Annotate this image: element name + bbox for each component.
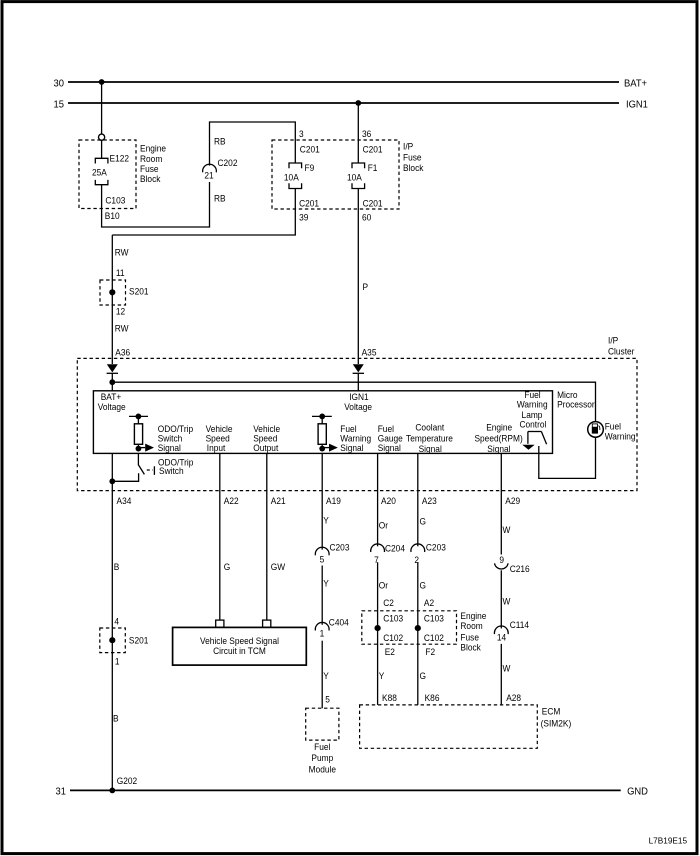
svg-text:Signal: Signal	[158, 442, 181, 453]
svg-text:B: B	[114, 561, 120, 572]
pin C2 label	[383, 597, 394, 608]
svg-text:Y: Y	[323, 670, 329, 681]
fuse value 25A label	[92, 167, 107, 178]
I/P cluster dashed box	[77, 358, 637, 490]
wire color Or label (A20 middle)	[379, 580, 388, 591]
Fuel Warning Lamp Control label	[517, 390, 548, 430]
I/P fuse block dashed box	[272, 140, 399, 209]
Fuel Warning Signal label	[340, 424, 371, 453]
pin B10 label	[105, 210, 120, 221]
pin K86 label	[425, 692, 440, 703]
pin 1 label	[115, 656, 120, 667]
svg-text:C102: C102	[383, 632, 403, 643]
wire: A34 cluster to G202	[111, 453, 113, 790]
fuse F9 10A	[289, 163, 302, 189]
svg-text:Output: Output	[253, 442, 279, 453]
svg-text:A21: A21	[271, 496, 286, 507]
pin F2 label	[425, 647, 435, 658]
pin 36 label	[362, 129, 371, 140]
wire: C216 to C114	[500, 570, 502, 628]
ground (lamp control)	[522, 445, 534, 450]
node G202 label	[117, 776, 137, 787]
fuse F1 10A	[352, 163, 365, 189]
ODO/Trip switch	[112, 453, 154, 481]
ODO/Trip Switch label	[158, 457, 193, 477]
ECM dashed box	[360, 705, 538, 748]
splice S201 (lower)	[100, 628, 149, 653]
Fuel Pump Module label	[309, 741, 336, 774]
fuse E122 25A	[95, 158, 108, 184]
svg-text:A34: A34	[117, 496, 132, 507]
svg-text:P: P	[363, 282, 369, 293]
svg-text:5: 5	[325, 694, 330, 705]
svg-text:Coolant: Coolant	[415, 422, 444, 433]
svg-text:W: W	[503, 525, 511, 536]
fuse F1 designator label	[368, 162, 378, 173]
svg-text:B: B	[113, 713, 119, 724]
svg-text:25A: 25A	[92, 167, 107, 178]
connector C114 pin 14	[494, 620, 529, 643]
engine room fuse block (bottom) dashed box	[362, 611, 457, 644]
connector C216 pin 9	[495, 555, 530, 574]
wire color G label (A23 upper)	[420, 516, 427, 527]
svg-text:F9: F9	[305, 162, 315, 173]
svg-text:A23: A23	[422, 496, 437, 507]
pin K88 label	[382, 692, 397, 703]
svg-text:Control: Control	[519, 419, 546, 430]
TCM terminal (A22 side)	[216, 620, 224, 627]
svg-text:RW: RW	[115, 247, 129, 258]
wire color GW label	[271, 561, 286, 572]
svg-text:GW: GW	[271, 561, 286, 572]
svg-text:Fuel: Fuel	[605, 421, 621, 432]
fuse value 10A label (F9)	[284, 172, 299, 183]
indicator lamp Fuel Warning	[588, 422, 604, 438]
pin A35 label	[362, 347, 377, 358]
svg-text:C216: C216	[510, 563, 530, 574]
connector C102 label (A23)	[424, 632, 444, 643]
Fuel Gauge Signal label	[378, 424, 403, 453]
fuse F9 designator label	[305, 162, 315, 173]
svg-text:C114: C114	[510, 620, 529, 631]
svg-text:1: 1	[115, 656, 120, 667]
wire: C404 to fuel pump module	[321, 641, 323, 709]
svg-text:L7B19E15: L7B19E15	[649, 835, 688, 845]
svg-text:Engine: Engine	[460, 610, 486, 621]
Vehicle Speed Output label	[253, 424, 280, 453]
svg-text:C103: C103	[105, 195, 125, 206]
wire: fuse E122 to C202 branch	[102, 182, 210, 227]
svg-text:Signal: Signal	[487, 443, 510, 454]
connector C102 label (A20)	[383, 632, 403, 643]
svg-text:B10: B10	[105, 210, 120, 221]
wire: A20 fuel gauge signal down to C204	[377, 453, 379, 546]
pin A19 label	[326, 496, 341, 507]
wire color G label (A23 lower)	[420, 670, 427, 681]
wire: IGN1 feed line 15	[68, 102, 619, 104]
connector C202	[203, 158, 238, 181]
connector bullet above engine room fuse block	[99, 134, 105, 140]
wire: fuse F1 down to cluster A35	[357, 189, 359, 365]
pin A28 label	[506, 692, 521, 703]
wire: BAT+ rail across cluster to fuel warning lamp	[112, 382, 595, 422]
svg-text:Engine: Engine	[486, 422, 512, 433]
svg-text:4: 4	[114, 616, 119, 627]
wire color Y label (A19 middle)	[323, 578, 329, 589]
wire: BAT+ feed line 30	[68, 81, 619, 83]
svg-text:60: 60	[362, 212, 371, 223]
pin E2 label	[385, 647, 395, 658]
svg-text:30: 30	[54, 78, 65, 89]
wire: F1 branch from line 15	[357, 103, 359, 163]
svg-text:Block: Block	[460, 642, 481, 653]
svg-text:RW: RW	[115, 323, 129, 334]
svg-text:21: 21	[204, 170, 213, 181]
svg-text:Y: Y	[323, 578, 329, 589]
pin 5 label (fuel pump)	[325, 694, 330, 705]
svg-text:Room: Room	[460, 621, 482, 632]
svg-text:IGN1: IGN1	[626, 99, 648, 110]
svg-text:S201: S201	[129, 635, 149, 646]
fuse E122 designator label	[110, 153, 130, 164]
engine room fuse block (top) dashed box	[79, 140, 136, 209]
svg-text:BAT+: BAT+	[624, 78, 647, 89]
svg-text:E122: E122	[110, 153, 130, 164]
Vehicle Speed Input label	[206, 424, 233, 453]
svg-text:Vehicle Speed Signal: Vehicle Speed Signal	[200, 635, 279, 646]
wire: C204 to ECM K88	[377, 562, 379, 705]
junction C103/C102 (A20)	[375, 625, 381, 631]
svg-text:S201: S201	[129, 286, 149, 297]
svg-text:G: G	[420, 670, 427, 681]
svg-text:Room: Room	[140, 153, 162, 164]
svg-text:A20: A20	[381, 496, 396, 507]
node 30 label	[54, 78, 65, 89]
svg-text:C2: C2	[383, 597, 394, 608]
junction on line 15 at F1 branch	[355, 100, 361, 106]
wire color RW label (below S201)	[115, 323, 129, 334]
wire: line30 down to fuse E122	[101, 82, 103, 134]
svg-text:Fuse: Fuse	[460, 632, 479, 643]
wire color Or label (A20 upper)	[379, 520, 388, 531]
fuse value 10A label (F1)	[347, 172, 362, 183]
wire color RB label (above C202)	[214, 136, 226, 147]
svg-text:A2: A2	[424, 597, 434, 608]
svg-text:G: G	[420, 580, 427, 591]
resistor R-fuel pull-up	[312, 414, 338, 452]
svg-text:Cluster: Cluster	[608, 346, 634, 357]
splice S201 (upper)	[100, 280, 149, 305]
vehicle speed signal circuit in TCM box	[173, 627, 307, 665]
diagram id L7B19E15	[649, 835, 688, 845]
svg-text:Fuse: Fuse	[140, 164, 159, 175]
cluster gauge unit solid box	[93, 391, 552, 454]
wire: lamp control loop to fuel warning lamp	[539, 437, 596, 478]
svg-text:Switch: Switch	[159, 466, 184, 477]
node IGN1 label	[626, 99, 648, 110]
pin A29 label	[505, 496, 520, 507]
svg-text:K86: K86	[425, 692, 440, 703]
svg-text:W: W	[503, 596, 511, 607]
svg-text:Input: Input	[207, 442, 226, 453]
svg-text:Block: Block	[140, 174, 161, 185]
TCM terminal (A21 side)	[263, 620, 271, 627]
svg-text:10A: 10A	[284, 172, 299, 183]
wire: bullet to fuse E122	[101, 140, 103, 158]
pin A20 label	[381, 496, 396, 507]
svg-text:5: 5	[320, 554, 325, 565]
svg-text:15: 15	[54, 99, 64, 110]
svg-text:C202: C202	[218, 158, 238, 169]
junction G202	[109, 788, 115, 794]
wire color G label (A22)	[224, 561, 231, 572]
junction on A34 wire at ODO switch	[109, 478, 115, 484]
svg-text:Block: Block	[403, 163, 424, 174]
svg-text:C103: C103	[424, 613, 444, 624]
wire color W label (A29 upper)	[503, 525, 511, 536]
svg-text:Temperature: Temperature	[406, 433, 453, 444]
wire: A19 fuel warning signal down to C203	[321, 453, 323, 549]
wire color Y label (A20 lower)	[379, 670, 385, 681]
wire: A21 vehicle speed output to TCM	[266, 453, 268, 620]
svg-text:G202: G202	[117, 776, 137, 787]
svg-text:9: 9	[499, 555, 504, 566]
wire color Y label (A19 lower)	[323, 670, 329, 681]
svg-text:31: 31	[56, 786, 66, 797]
svg-text:Voltage: Voltage	[344, 402, 372, 413]
node BAT+ label	[624, 78, 647, 89]
wire color W label (A29 middle)	[503, 596, 511, 607]
fuel pump module dashed box	[306, 708, 339, 740]
svg-text:C404: C404	[329, 617, 349, 628]
wire: C202 up and over to fuse F9	[210, 122, 296, 166]
svg-text:C203: C203	[330, 542, 350, 553]
wire: ground line 31 GND	[70, 789, 621, 791]
wire: A35 arrow to cluster box	[357, 373, 359, 391]
svg-text:F1: F1	[368, 162, 378, 173]
svg-text:RB: RB	[214, 193, 226, 204]
svg-text:Engine: Engine	[140, 143, 166, 154]
svg-text:C203: C203	[426, 542, 446, 553]
svg-text:I/P: I/P	[403, 141, 413, 152]
svg-text:1: 1	[320, 628, 325, 639]
connector C201 label (F1 bottom)	[363, 198, 383, 209]
svg-text:Circuit in TCM: Circuit in TCM	[213, 646, 266, 657]
wire color B label (lower)	[113, 713, 119, 724]
svg-text:Pump: Pump	[311, 753, 333, 764]
wire: C203 to C404	[321, 566, 323, 625]
node 15 label	[54, 99, 64, 110]
connector C203 pin 2	[411, 542, 446, 565]
pin A22 label	[224, 496, 239, 507]
pin 4 label	[114, 616, 119, 627]
svg-text:(SIM2K): (SIM2K)	[541, 718, 572, 729]
svg-text:Warning: Warning	[605, 431, 636, 442]
svg-text:Voltage: Voltage	[98, 402, 126, 413]
connector C201 label (F1 top)	[363, 144, 383, 155]
wire: A22 vehicle speed input to TCM	[219, 453, 221, 620]
junction A36 on BAT+ rail	[109, 379, 115, 385]
svg-text:Y: Y	[323, 515, 329, 526]
svg-text:A28: A28	[506, 692, 521, 703]
svg-text:A29: A29	[505, 496, 520, 507]
Engine Speed(RPM) Signal label	[474, 422, 522, 454]
wire: C203 to ECM K86	[417, 562, 419, 705]
wire color B label (upper)	[114, 561, 120, 572]
pin A23 label	[422, 496, 437, 507]
engine room fuse block (bottom) label	[460, 610, 486, 652]
ECM (SIM2K) label	[541, 706, 572, 729]
svg-text:ECM: ECM	[542, 706, 561, 717]
svg-text:Processor: Processor	[557, 399, 595, 410]
connector C103 label (A23)	[424, 613, 444, 624]
svg-text:A22: A22	[224, 496, 239, 507]
node IGN1 Voltage label	[344, 392, 372, 413]
pin 60 label	[362, 212, 371, 223]
svg-text:Fuse: Fuse	[403, 152, 422, 163]
pin 11 label	[116, 268, 125, 279]
wire color RB label (below C202)	[214, 193, 226, 204]
svg-text:RB: RB	[214, 136, 226, 147]
svg-text:A36: A36	[115, 347, 130, 358]
engine room fuse block label	[140, 143, 166, 184]
resistor R-odo pull-up	[129, 414, 154, 452]
fuel warning lamp control switch	[528, 432, 547, 445]
wire color P label	[363, 282, 369, 293]
pin A21 label	[271, 496, 286, 507]
connector C103 label (A20)	[383, 613, 403, 624]
svg-text:39: 39	[299, 212, 308, 223]
Coolant Temperature Signal label	[406, 422, 453, 454]
svg-text:Signal: Signal	[340, 442, 363, 453]
connector C203 pin 5	[315, 542, 349, 565]
connector C404 pin 1	[315, 617, 348, 639]
Fuel Warning lamp label	[605, 421, 636, 442]
svg-text:W: W	[503, 663, 511, 674]
svg-text:G: G	[224, 561, 231, 572]
wire: C114 to ECM A28	[500, 644, 502, 705]
svg-text:C103: C103	[383, 613, 403, 624]
pin A2 label	[424, 597, 434, 608]
svg-text:11: 11	[116, 268, 125, 279]
wire color G label (A23 middle)	[420, 580, 427, 591]
svg-text:3: 3	[299, 129, 304, 140]
svg-text:C102: C102	[424, 632, 444, 643]
svg-text:Speed(RPM): Speed(RPM)	[474, 433, 522, 444]
svg-text:A35: A35	[362, 347, 377, 358]
svg-text:C201: C201	[363, 198, 383, 209]
svg-text:Module: Module	[309, 764, 336, 775]
node GND label	[627, 786, 648, 797]
svg-text:E2: E2	[385, 647, 395, 658]
svg-text:Signal: Signal	[419, 443, 442, 454]
connector C201 label (F9 bottom)	[299, 198, 319, 209]
connector C201 label (F9 top)	[300, 144, 320, 155]
svg-text:Warning: Warning	[517, 399, 548, 410]
I/P cluster label	[608, 335, 634, 357]
svg-text:F2: F2	[425, 647, 435, 658]
junction on line 30 at E122 branch	[99, 79, 105, 85]
pin A36 label	[115, 347, 130, 358]
svg-text:GND: GND	[627, 786, 648, 797]
svg-text:14: 14	[497, 632, 506, 643]
svg-text:C201: C201	[299, 198, 319, 209]
wire: fuse F9 down and left to RW branch	[112, 189, 295, 236]
svg-text:G: G	[420, 516, 427, 527]
svg-text:K88: K88	[382, 692, 397, 703]
svg-text:I/P: I/P	[608, 335, 618, 346]
wire color Y label (A19 upper)	[323, 515, 329, 526]
connector arrow A36 into cluster	[107, 364, 118, 373]
wire: A36 arrow to BAT+ rail	[111, 373, 113, 391]
wire color W label (A29 lower)	[503, 663, 511, 674]
pin 39 label	[299, 212, 308, 223]
svg-text:C201: C201	[363, 144, 383, 155]
svg-text:36: 36	[362, 129, 371, 140]
svg-text:Fuel: Fuel	[314, 741, 330, 752]
svg-text:Signal: Signal	[378, 442, 401, 453]
connector arrow A35 into cluster	[353, 364, 364, 373]
wire: A29 engine speed signal down to C216	[500, 453, 502, 554]
svg-text:Y: Y	[379, 670, 385, 681]
ODO/Trip Switch Signal label	[158, 424, 193, 453]
pin A34 label	[117, 496, 132, 507]
pin 3 label	[299, 129, 304, 140]
svg-text:10A: 10A	[347, 172, 362, 183]
wire: RW branch down to S201	[111, 235, 113, 364]
node BAT+ Voltage label	[98, 392, 126, 413]
svg-text:A19: A19	[326, 496, 341, 507]
I/P fuse block label	[403, 141, 424, 173]
connector C103 label	[105, 195, 125, 206]
svg-text:12: 12	[116, 306, 125, 317]
svg-text:Or: Or	[379, 520, 388, 531]
pin 12 label	[116, 306, 125, 317]
junction C103/C102 (A23)	[415, 625, 421, 631]
Micro Processor label	[557, 390, 595, 410]
wire: A23 coolant temperature signal down to C203	[417, 453, 419, 546]
wire color RW label (above S201)	[115, 247, 129, 258]
connector C204 pin 7	[371, 543, 405, 565]
node 31 label	[56, 786, 66, 797]
svg-text:C204: C204	[385, 543, 405, 554]
svg-text:C201: C201	[300, 144, 320, 155]
svg-text:Or: Or	[379, 580, 388, 591]
